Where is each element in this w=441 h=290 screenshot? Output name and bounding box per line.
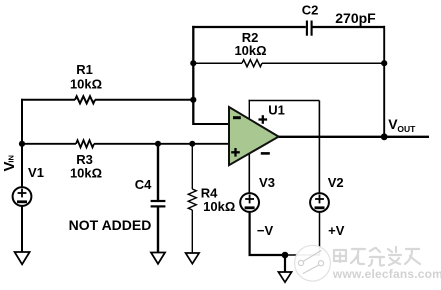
wire U1 negative supply pin <box>248 152 250 194</box>
svg-text:10kΩ: 10kΩ <box>234 43 266 58</box>
svg-text:V2: V2 <box>328 175 344 190</box>
ground C4 <box>151 253 165 264</box>
junction dot output <box>381 133 388 140</box>
capacitor C4 <box>151 201 166 206</box>
wire R4 top <box>191 144 193 189</box>
junction dot C4 node <box>155 141 161 147</box>
output wire <box>279 136 429 138</box>
wire C4 top <box>157 144 159 200</box>
watermark text dianzifashaoyou <box>334 247 420 266</box>
svg-text:OUT: OUT <box>397 124 416 134</box>
svg-text:www.elecfans.com: www.elecfans.com <box>332 267 441 281</box>
op-amp U1 <box>229 107 279 165</box>
svg-text:270pF: 270pF <box>335 10 376 26</box>
junction dot V1 node <box>19 141 25 147</box>
svg-text:V3: V3 <box>259 175 275 190</box>
svg-text:NOT ADDED: NOT ADDED <box>69 217 152 233</box>
svg-text:10kΩ: 10kΩ <box>203 199 235 214</box>
ground center <box>278 272 291 282</box>
wire V2 upper vertical <box>318 101 320 194</box>
junction dot ground node <box>282 252 289 259</box>
svg-text:U1: U1 <box>268 103 285 118</box>
resistor R1 <box>75 96 95 103</box>
junction dot R2 left <box>190 60 196 66</box>
resistor R3 <box>76 140 94 147</box>
svg-text:10kΩ: 10kΩ <box>70 76 102 91</box>
svg-text:R3: R3 <box>76 152 93 167</box>
junction dot R2 right <box>381 60 387 66</box>
wire V3 bottom <box>250 212 285 255</box>
wire feedback right vertical <box>383 26 385 137</box>
wire inverting input stub <box>193 123 230 125</box>
junction dot R4 node <box>189 141 195 147</box>
ground R4 <box>186 253 200 264</box>
svg-text:C4: C4 <box>135 177 152 192</box>
capacitor C2 <box>307 21 312 36</box>
wire C2 top rail <box>192 26 385 28</box>
ground V1 <box>15 252 30 264</box>
svg-text:C2: C2 <box>302 3 319 18</box>
wire R1 row <box>21 99 193 101</box>
voltage source V2 <box>310 193 329 212</box>
wire ground stub <box>284 255 286 272</box>
wire C4 bottom <box>157 208 159 254</box>
wire supply top rail <box>249 100 320 102</box>
wire R2 row <box>193 62 385 64</box>
svg-text:−V: −V <box>257 223 274 238</box>
op-amp positive supply label <box>259 115 268 124</box>
junction dot R1 feedback <box>190 97 196 103</box>
wire U1 positive supply pin <box>248 100 250 120</box>
resistor R4 <box>188 189 196 210</box>
svg-text:+V: +V <box>328 223 345 238</box>
wire feedback left vertical <box>192 26 194 125</box>
wire V1 vertical <box>21 99 23 253</box>
svg-text:V1: V1 <box>28 165 44 180</box>
wire R3 row <box>22 143 230 145</box>
watermark logo circle <box>295 245 331 281</box>
op-amp negative supply label <box>261 152 270 155</box>
op-amp inverting input label <box>233 116 241 119</box>
voltage source V3 <box>240 193 259 212</box>
svg-text:10kΩ: 10kΩ <box>70 166 102 181</box>
svg-text:IN: IN <box>7 155 16 163</box>
resistor R2 <box>242 60 262 67</box>
voltage source V1 <box>13 187 32 206</box>
wire R4 bottom <box>191 210 193 254</box>
op-amp non-inverting input label <box>231 148 240 157</box>
svg-text:R1: R1 <box>76 62 93 77</box>
wire V2 bottom <box>285 212 320 255</box>
